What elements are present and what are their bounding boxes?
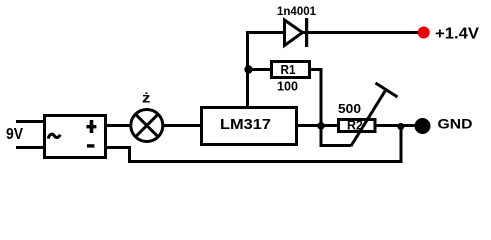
svg-text:R1: R1 <box>281 62 296 77</box>
svg-text:ż: ż <box>142 91 151 106</box>
svg-text:500: 500 <box>338 101 361 116</box>
svg-text:GND: GND <box>438 116 473 132</box>
svg-text:1n4001: 1n4001 <box>277 4 316 18</box>
svg-text:LM317: LM317 <box>220 116 271 133</box>
svg-text:9V: 9V <box>6 126 24 143</box>
svg-text:+1.4V: +1.4V <box>435 26 479 43</box>
svg-text:100: 100 <box>277 79 298 94</box>
